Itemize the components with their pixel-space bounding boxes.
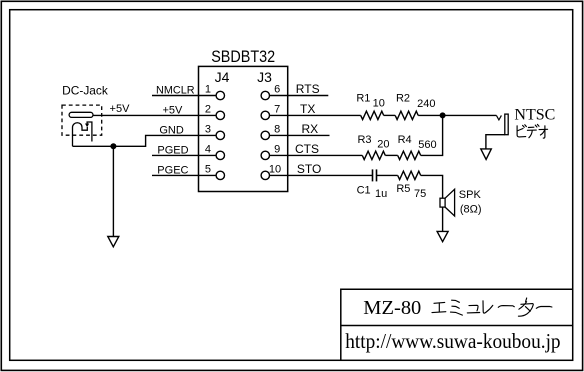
svg-text:C1: C1 bbox=[357, 184, 371, 196]
svg-text:+5V: +5V bbox=[110, 103, 131, 115]
svg-text:2: 2 bbox=[205, 103, 211, 115]
svg-text:3: 3 bbox=[205, 123, 211, 135]
svg-text:5: 5 bbox=[205, 163, 211, 175]
svg-text:CTS: CTS bbox=[295, 142, 319, 156]
svg-text:TX: TX bbox=[300, 102, 315, 116]
svg-text:560: 560 bbox=[418, 139, 436, 151]
svg-text:R4: R4 bbox=[398, 134, 412, 146]
svg-text:R5: R5 bbox=[396, 183, 410, 195]
svg-text:RTS: RTS bbox=[296, 82, 320, 96]
svg-text:7: 7 bbox=[274, 103, 280, 115]
svg-text:+5V: +5V bbox=[162, 104, 183, 116]
svg-text:DC-Jack: DC-Jack bbox=[62, 84, 109, 98]
svg-text:10: 10 bbox=[269, 163, 281, 175]
svg-text:R2: R2 bbox=[396, 93, 410, 105]
svg-text:NTSC: NTSC bbox=[514, 106, 555, 123]
svg-text:1: 1 bbox=[205, 83, 211, 95]
svg-text:9: 9 bbox=[274, 143, 280, 155]
svg-text:20: 20 bbox=[377, 138, 389, 150]
svg-text:R1: R1 bbox=[356, 93, 370, 105]
svg-text:SPK: SPK bbox=[459, 189, 482, 201]
svg-text:(8Ω): (8Ω) bbox=[460, 204, 482, 216]
svg-text:J4: J4 bbox=[215, 69, 230, 85]
svg-text:75: 75 bbox=[414, 188, 426, 200]
svg-text:NMCLR: NMCLR bbox=[156, 84, 195, 96]
svg-text:R3: R3 bbox=[357, 134, 371, 146]
svg-text:1u: 1u bbox=[375, 188, 387, 200]
svg-text:http://www.suwa-koubou.jp: http://www.suwa-koubou.jp bbox=[345, 329, 560, 353]
svg-text:PGED: PGED bbox=[157, 144, 188, 156]
svg-text:6: 6 bbox=[274, 83, 280, 95]
svg-text:STO: STO bbox=[297, 162, 321, 176]
svg-text:GND: GND bbox=[159, 124, 184, 136]
svg-text:PGEC: PGEC bbox=[157, 164, 188, 176]
svg-text:10: 10 bbox=[373, 97, 385, 109]
svg-text:8: 8 bbox=[274, 123, 280, 135]
svg-text:MZ-80: MZ-80 bbox=[363, 297, 421, 319]
svg-text:4: 4 bbox=[205, 143, 211, 155]
svg-text:SBDBT32: SBDBT32 bbox=[211, 48, 275, 66]
svg-text:J3: J3 bbox=[257, 69, 272, 85]
svg-text:RX: RX bbox=[301, 122, 318, 136]
svg-text:240: 240 bbox=[417, 98, 435, 110]
